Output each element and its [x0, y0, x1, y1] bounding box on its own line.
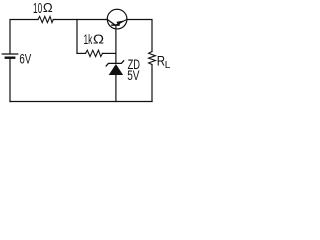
svg-text:Ω: Ω — [43, 1, 53, 15]
resistor R1 zigzag — [38, 16, 53, 22]
svg-text:5V: 5V — [127, 68, 140, 83]
transistor base lead wire — [115, 25, 117, 63]
wire zener anode to bottom — [115, 75, 117, 102]
resistor RL zigzag — [149, 52, 156, 65]
wire bottom — [10, 101, 152, 103]
zener ZD triangle — [109, 64, 123, 75]
wire 1k right lead — [103, 52, 116, 54]
wire 1k left lead — [77, 52, 86, 54]
transistor emitter lead — [116, 19, 127, 25]
wire emitter to top-right corner — [127, 20, 152, 52]
battery B1 short plate — [6, 57, 14, 59]
transistor Q1 circle — [107, 9, 127, 29]
svg-text:10: 10 — [33, 0, 42, 17]
svg-text:6V: 6V — [19, 52, 32, 67]
wire RL to bottom corner — [151, 65, 153, 102]
wire branch down to 1k — [76, 20, 78, 54]
transistor collector lead — [107, 20, 115, 26]
wire left bottom — [9, 58, 11, 101]
zener ZD cathode bar — [106, 61, 124, 66]
resistor R2 zigzag — [86, 50, 103, 56]
wire top middle segment — [53, 19, 107, 21]
transistor base bar — [112, 24, 119, 26]
transistor emitter arrow — [116, 21, 123, 26]
wire top-left segment — [10, 20, 38, 55]
svg-text:Ω: Ω — [93, 32, 104, 46]
battery B1 long plate — [2, 53, 18, 55]
svg-text:1k: 1k — [84, 31, 93, 47]
svg-text:L: L — [165, 60, 171, 71]
